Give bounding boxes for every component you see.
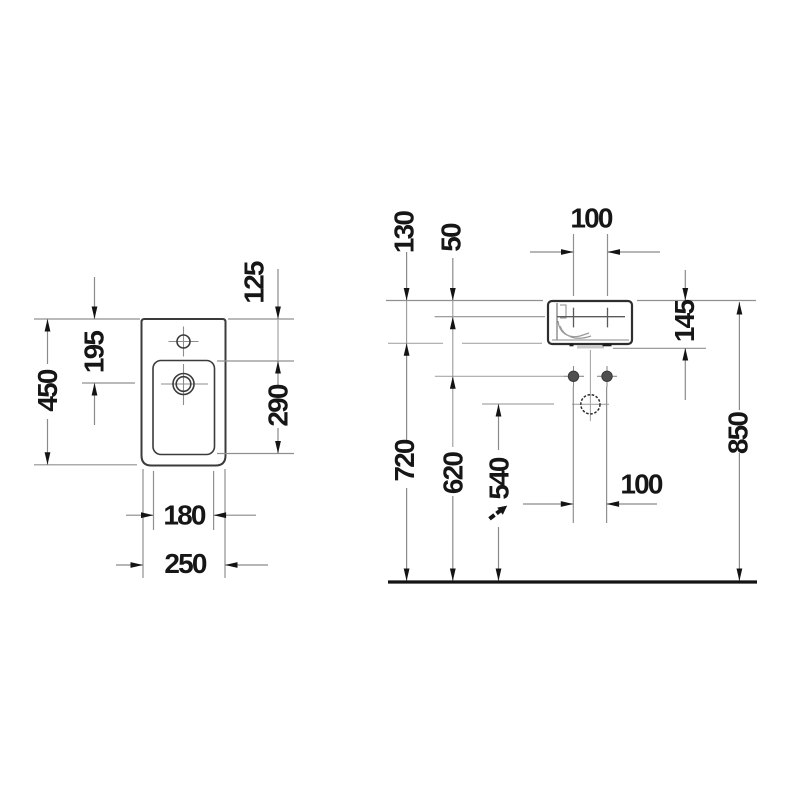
extension line drain center left (82, 382, 135, 384)
label 620 (438, 452, 469, 495)
basin inner bowl (plan) (153, 361, 215, 455)
svg-text:195: 195 (79, 331, 110, 374)
svg-text:720: 720 (389, 439, 420, 482)
svg-text:250: 250 (164, 548, 207, 579)
tap hole marks (front) (557, 308, 625, 328)
tap hole height line (435, 316, 545, 318)
dimension 100 bottom (523, 501, 657, 507)
label 100 top (570, 203, 613, 234)
svg-text:100: 100 (620, 469, 663, 500)
label 145 (669, 300, 700, 343)
mounting hole right (597, 366, 617, 387)
fixing bottom line right (613, 347, 706, 349)
extension verticals below basin (143, 469, 225, 578)
extension line bottom edge left (34, 464, 137, 466)
drain centerlines (plan) (161, 364, 208, 405)
outlet direction arrow symbol (490, 506, 508, 519)
basin bottom height line (388, 342, 542, 344)
overflow siphon detail (558, 305, 591, 338)
extension line top edge left (34, 318, 140, 320)
basin front outline (548, 301, 632, 344)
extension line top edge right (228, 318, 294, 320)
extension line bowl top right (217, 360, 294, 362)
extension line bowl bottom right (217, 453, 294, 455)
floor line (388, 580, 757, 583)
dimension 100 top (530, 249, 660, 255)
dimension 540 line (496, 404, 502, 581)
dimension 290 line (275, 361, 281, 454)
label 100 bottom (620, 469, 663, 500)
bottom extension verticals from mounting holes (573, 387, 606, 523)
top extension verticals from tap holes (574, 234, 608, 296)
tap hole circle (177, 335, 190, 348)
drain circle (front) (572, 350, 609, 421)
dimension 250 line (116, 562, 268, 568)
dimension 125 line (275, 269, 281, 361)
drain fitting below basin (570, 345, 612, 349)
label 850 (723, 412, 754, 455)
mounting holes height line (435, 375, 565, 377)
mounting hole left (564, 366, 584, 387)
dimension 450 line (45, 319, 51, 465)
dimension 145 line (682, 270, 688, 400)
svg-text:125: 125 (239, 261, 270, 304)
drain height line (482, 403, 554, 405)
label 450 (32, 369, 63, 412)
dimension 130/720 line (404, 252, 410, 581)
label 290 (263, 384, 294, 427)
dimension 850 line (737, 302, 743, 581)
label 540 (484, 457, 515, 500)
svg-text:620: 620 (438, 452, 469, 495)
basin inner wall line (552, 303, 629, 340)
rim line left segment (386, 300, 543, 302)
label 50 (436, 223, 467, 252)
label 125 (239, 261, 270, 304)
dimension 180 line (126, 512, 256, 518)
label 180 (163, 500, 206, 531)
svg-text:290: 290 (263, 384, 294, 427)
basin outer outline (plan) (142, 319, 226, 466)
svg-text:130: 130 (389, 211, 420, 254)
dimension 50/620 line (450, 258, 456, 581)
svg-text:50: 50 (436, 223, 467, 252)
drain circles (plan) (173, 374, 194, 395)
tap hole centerlines (169, 327, 199, 357)
svg-text:540: 540 (484, 457, 515, 500)
label 720 (389, 439, 420, 482)
label 250 (164, 548, 207, 579)
svg-text:450: 450 (32, 369, 63, 412)
label 130 (389, 211, 420, 254)
rim line right segment (637, 300, 756, 302)
label 195 (79, 331, 110, 374)
svg-text:100: 100 (570, 203, 613, 234)
dimension 195 line (92, 277, 98, 425)
svg-text:145: 145 (669, 300, 700, 343)
svg-text:850: 850 (723, 412, 754, 455)
svg-text:180: 180 (163, 500, 206, 531)
